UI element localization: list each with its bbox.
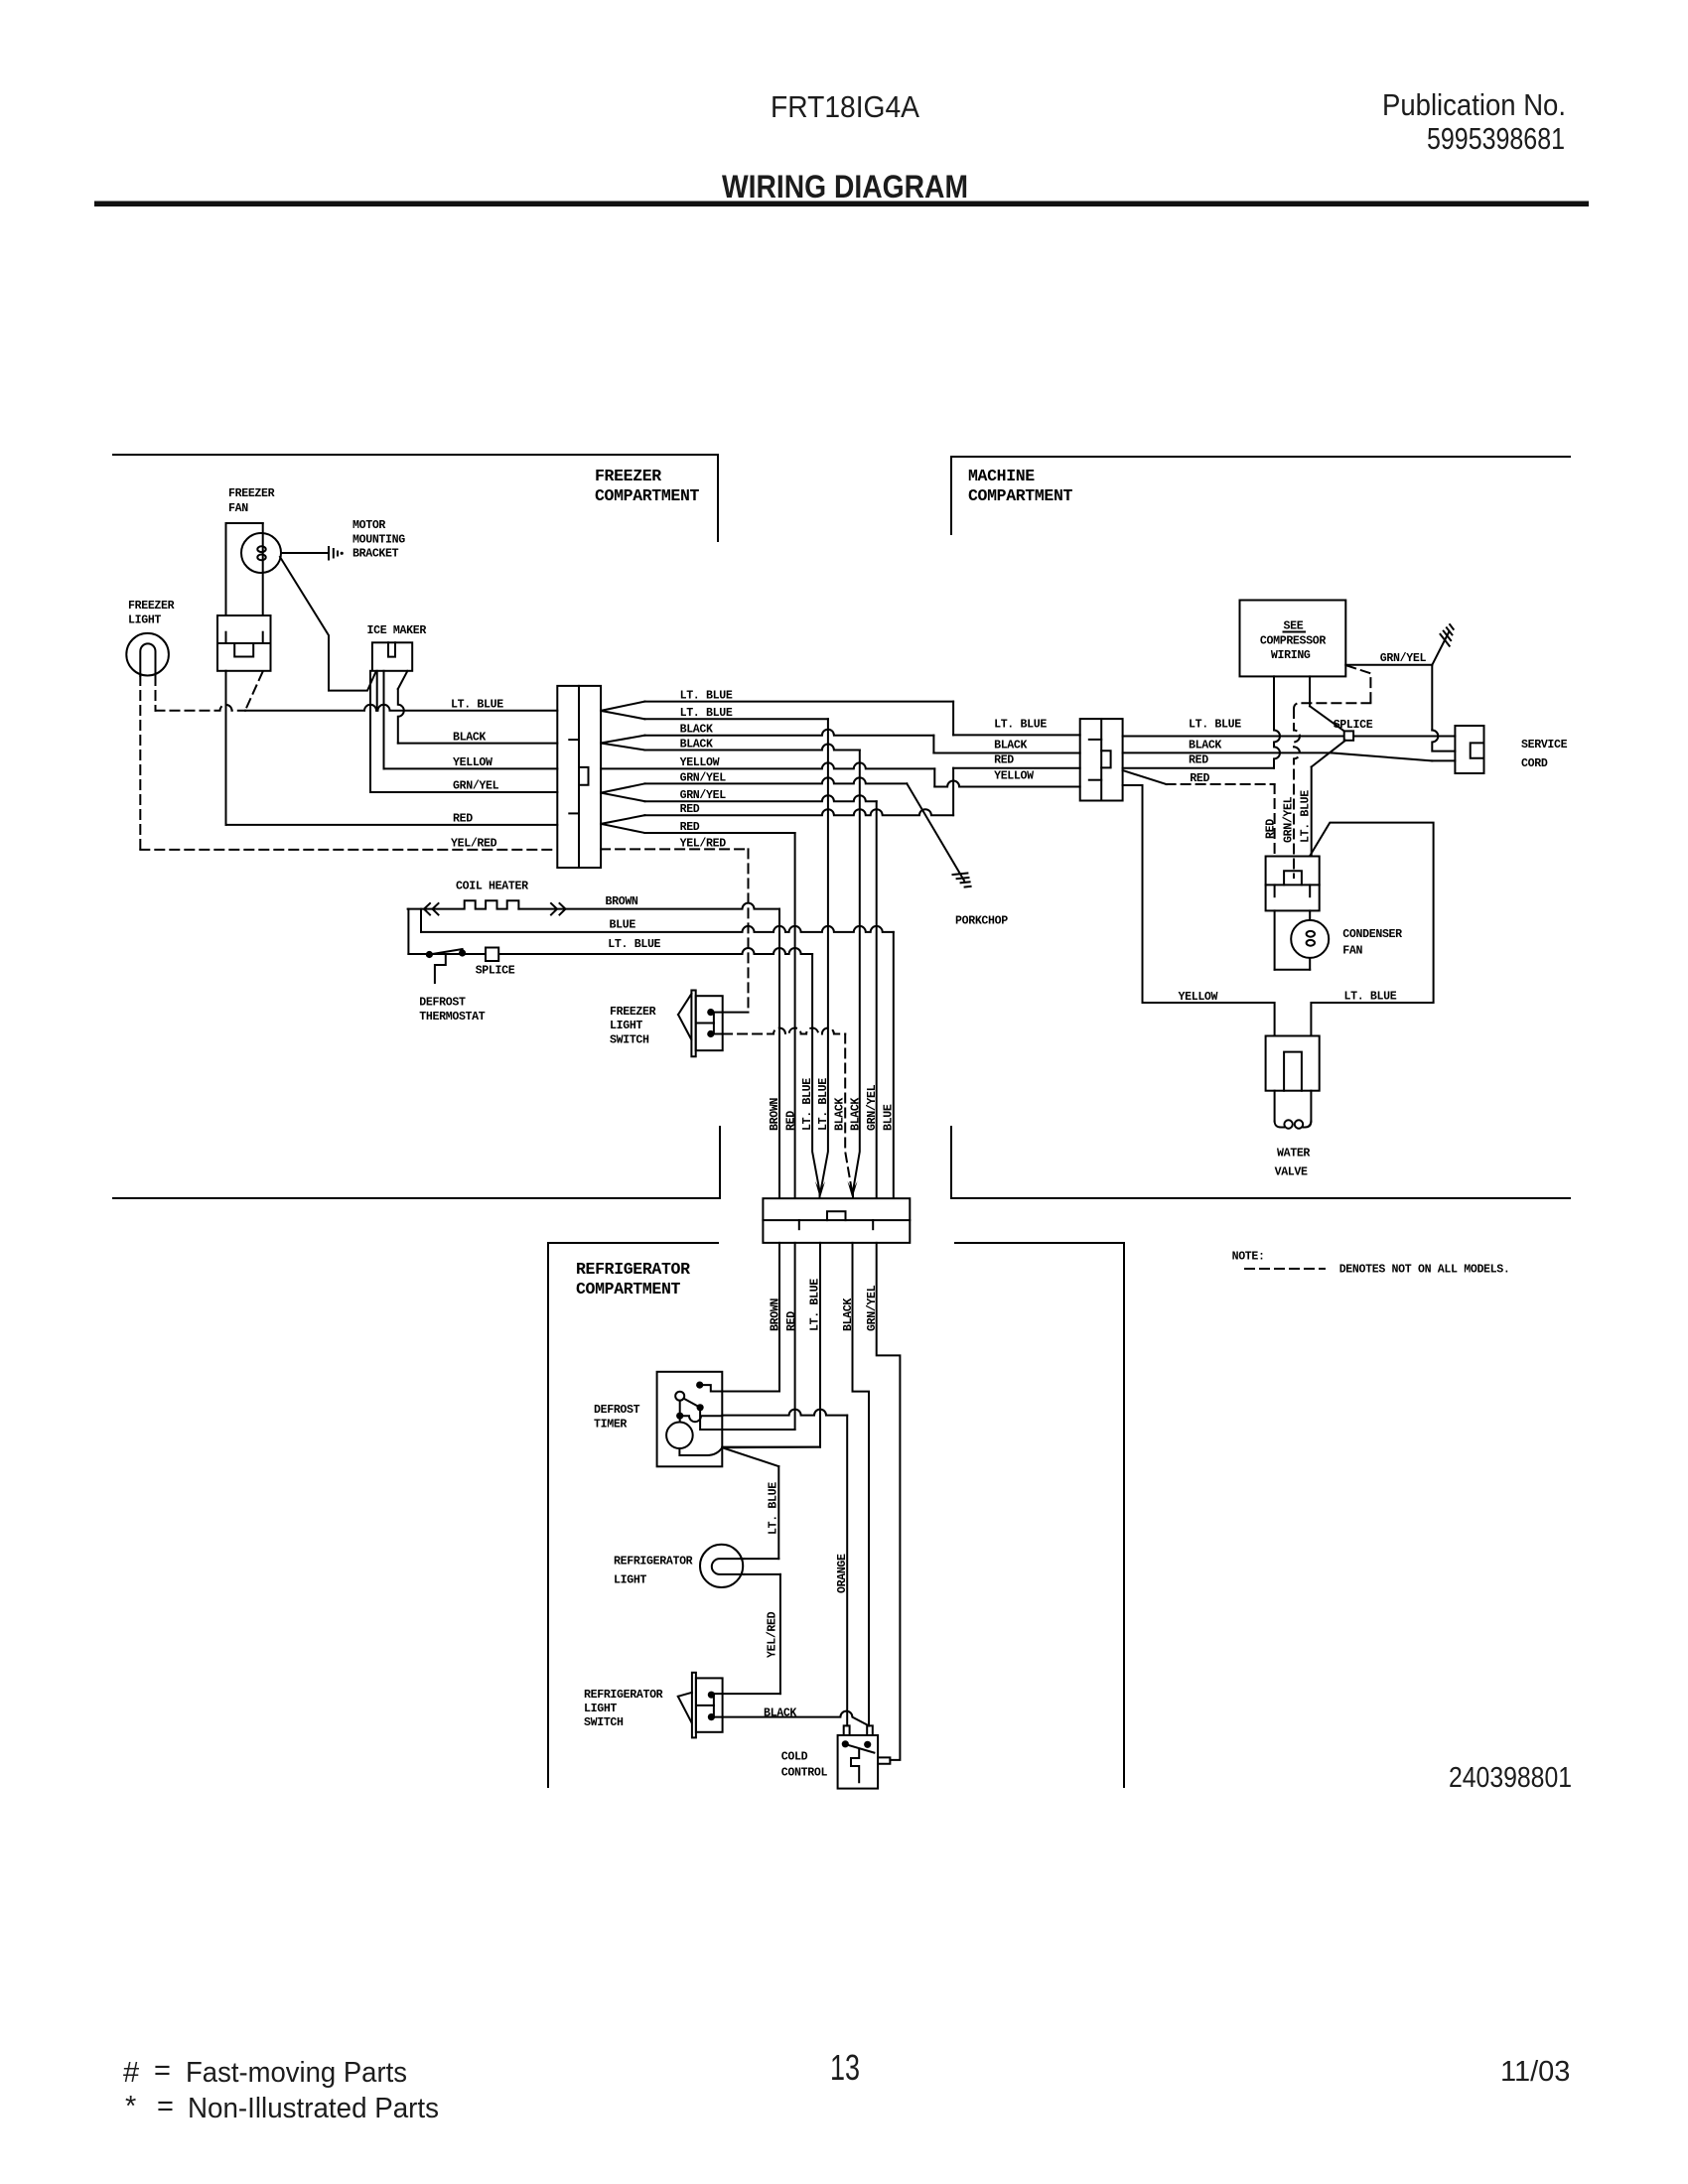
svg-text:FREEZER: FREEZER xyxy=(228,487,275,500)
svg-text:BLACK: BLACK xyxy=(994,740,1027,752)
svg-text:RED: RED xyxy=(453,813,473,826)
svg-text:BLACK: BLACK xyxy=(1189,740,1221,752)
svg-text:SWITCH: SWITCH xyxy=(584,1716,624,1729)
svg-text:CONDENSER: CONDENSER xyxy=(1342,928,1402,941)
svg-text:#: # xyxy=(123,2057,139,2089)
svg-text:YELLOW: YELLOW xyxy=(453,756,492,769)
svg-text:LT. BLUE: LT. BLUE xyxy=(1344,991,1397,1004)
svg-text:BROWN: BROWN xyxy=(606,895,638,908)
svg-text:LIGHT: LIGHT xyxy=(614,1574,646,1587)
svg-text:RED: RED xyxy=(785,1111,798,1131)
svg-text:LIGHT: LIGHT xyxy=(610,1020,642,1032)
svg-text:LT. BLUE: LT. BLUE xyxy=(768,1482,780,1535)
svg-text:YELLOW: YELLOW xyxy=(994,770,1034,783)
svg-text:LT. BLUE: LT. BLUE xyxy=(809,1279,822,1331)
svg-text:LT. BLUE: LT. BLUE xyxy=(801,1078,814,1131)
svg-text:MOTOR: MOTOR xyxy=(352,519,385,532)
svg-text:ICE MAKER: ICE MAKER xyxy=(367,624,427,637)
svg-text:BLACK: BLACK xyxy=(842,1298,855,1331)
svg-text:COMPARTMENT: COMPARTMENT xyxy=(576,1280,681,1298)
svg-text:BLACK: BLACK xyxy=(680,739,713,751)
svg-text:FAN: FAN xyxy=(228,502,248,515)
svg-text:240398801: 240398801 xyxy=(1449,1762,1572,1794)
svg-text:*: * xyxy=(125,2091,136,2122)
svg-text:BROWN: BROWN xyxy=(769,1098,781,1131)
svg-text:FAN: FAN xyxy=(1342,945,1362,958)
svg-text:LT. BLUE: LT. BLUE xyxy=(680,690,733,703)
svg-text:SPLICE: SPLICE xyxy=(1334,719,1373,732)
svg-text:FREEZER: FREEZER xyxy=(128,600,175,613)
svg-text:FREEZER: FREEZER xyxy=(595,467,661,485)
svg-text:MACHINE: MACHINE xyxy=(968,467,1035,485)
svg-text:BLUE: BLUE xyxy=(610,919,636,932)
svg-text:13: 13 xyxy=(830,2047,860,2088)
svg-text:LT. BLUE: LT. BLUE xyxy=(1189,719,1241,732)
svg-text:FREEZER: FREEZER xyxy=(610,1006,656,1019)
svg-text:YELLOW: YELLOW xyxy=(1179,991,1218,1004)
svg-text:GRN/YEL: GRN/YEL xyxy=(680,771,727,784)
svg-text:BLACK: BLACK xyxy=(850,1098,863,1131)
svg-text:11/03: 11/03 xyxy=(1500,2056,1570,2088)
svg-text:YEL/RED: YEL/RED xyxy=(451,838,497,851)
svg-text:REFRIGERATOR: REFRIGERATOR xyxy=(584,1689,663,1702)
svg-text:ORANGE: ORANGE xyxy=(836,1554,849,1593)
svg-text:THERMOSTAT: THERMOSTAT xyxy=(419,1011,485,1024)
svg-text:LT. BLUE: LT. BLUE xyxy=(817,1078,830,1131)
svg-text:SEE: SEE xyxy=(1284,620,1304,633)
svg-text:COMPARTMENT: COMPARTMENT xyxy=(968,486,1073,505)
svg-text:=: = xyxy=(157,2091,174,2122)
svg-text:LT. BLUE: LT. BLUE xyxy=(608,938,660,951)
svg-text:Non-Illustrated Parts: Non-Illustrated Parts xyxy=(188,2093,439,2124)
svg-text:BLACK: BLACK xyxy=(453,732,486,745)
svg-text:FRT18IG4A: FRT18IG4A xyxy=(771,89,919,124)
svg-text:RED: RED xyxy=(680,821,700,834)
svg-text:DEFROST: DEFROST xyxy=(419,997,466,1010)
svg-text:BLACK: BLACK xyxy=(834,1098,847,1131)
svg-text:GRN/YEL: GRN/YEL xyxy=(1380,652,1427,665)
svg-text:RED: RED xyxy=(1190,772,1209,785)
svg-text:RED: RED xyxy=(1265,819,1278,839)
svg-text:LT. BLUE: LT. BLUE xyxy=(994,719,1047,732)
svg-text:BLACK: BLACK xyxy=(764,1706,796,1719)
svg-text:BRACKET: BRACKET xyxy=(352,548,399,561)
svg-text:COMPRESSOR: COMPRESSOR xyxy=(1260,635,1326,648)
svg-text:COMPARTMENT: COMPARTMENT xyxy=(595,486,700,505)
svg-text:BLUE: BLUE xyxy=(883,1104,896,1131)
svg-text:COIL HEATER: COIL HEATER xyxy=(456,881,528,893)
svg-text:WIRING DIAGRAM: WIRING DIAGRAM xyxy=(722,169,968,205)
svg-text:Publication No.: Publication No. xyxy=(1382,87,1566,122)
svg-text:LT. BLUE: LT. BLUE xyxy=(1300,790,1313,843)
svg-text:VALVE: VALVE xyxy=(1275,1166,1308,1179)
svg-text:YEL/RED: YEL/RED xyxy=(767,1611,779,1658)
svg-text:=: = xyxy=(154,2055,171,2087)
svg-text:PORKCHOP: PORKCHOP xyxy=(955,915,1008,928)
svg-text:NOTE:: NOTE: xyxy=(1232,1251,1265,1264)
svg-text:LT. BLUE: LT. BLUE xyxy=(451,699,503,712)
svg-text:LIGHT: LIGHT xyxy=(584,1703,617,1715)
svg-text:SPLICE: SPLICE xyxy=(476,965,515,978)
svg-text:RED: RED xyxy=(680,803,700,816)
svg-text:GRN/YEL: GRN/YEL xyxy=(680,789,727,802)
svg-text:COLD: COLD xyxy=(781,1750,808,1763)
svg-text:GRN/YEL: GRN/YEL xyxy=(866,1285,879,1331)
svg-text:RED: RED xyxy=(994,754,1014,767)
svg-text:DENOTES NOT ON ALL MODELS.: DENOTES NOT ON ALL MODELS. xyxy=(1339,1264,1510,1277)
svg-text:GRN/YEL: GRN/YEL xyxy=(866,1084,879,1131)
svg-text:REFRIGERATOR: REFRIGERATOR xyxy=(576,1260,690,1279)
svg-text:LT. BLUE: LT. BLUE xyxy=(680,707,733,720)
svg-text:GRN/YEL: GRN/YEL xyxy=(1283,796,1296,843)
svg-text:RED: RED xyxy=(785,1311,798,1331)
svg-text:MOUNTING: MOUNTING xyxy=(352,534,405,547)
svg-text:BROWN: BROWN xyxy=(770,1298,782,1331)
svg-text:LIGHT: LIGHT xyxy=(128,614,161,627)
svg-text:WIRING: WIRING xyxy=(1271,649,1311,662)
svg-text:Fast-moving Parts: Fast-moving Parts xyxy=(186,2057,407,2089)
svg-text:CORD: CORD xyxy=(1521,757,1548,770)
svg-text:YELLOW: YELLOW xyxy=(680,756,720,769)
svg-text:TIMER: TIMER xyxy=(594,1419,627,1432)
svg-text:RED: RED xyxy=(1189,754,1208,767)
svg-text:DEFROST: DEFROST xyxy=(594,1404,640,1417)
svg-text:GRN/YEL: GRN/YEL xyxy=(453,780,499,793)
svg-text:CONTROL: CONTROL xyxy=(781,1766,828,1779)
svg-text:BLACK: BLACK xyxy=(680,724,713,737)
svg-text:REFRIGERATOR: REFRIGERATOR xyxy=(614,1556,693,1569)
svg-text:SERVICE: SERVICE xyxy=(1521,739,1568,751)
svg-text:YEL/RED: YEL/RED xyxy=(680,837,727,850)
svg-text:WATER: WATER xyxy=(1277,1148,1310,1160)
svg-text:SWITCH: SWITCH xyxy=(610,1034,649,1047)
svg-text:5995398681: 5995398681 xyxy=(1427,121,1565,156)
